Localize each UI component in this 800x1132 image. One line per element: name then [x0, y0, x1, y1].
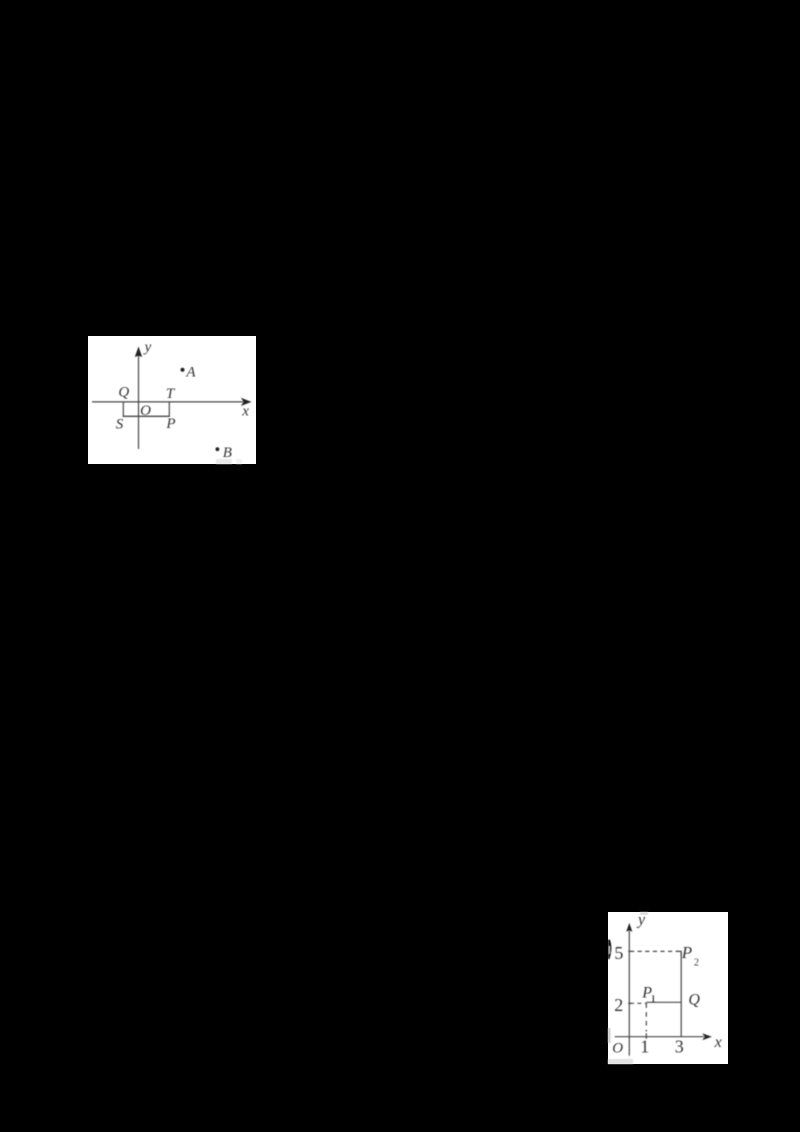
svg-text:Q: Q: [688, 992, 700, 1009]
svg-text:Q: Q: [118, 385, 129, 401]
right-angle mark at P1: [652, 997, 654, 1003]
svg-text:x: x: [714, 1034, 722, 1051]
left-edge cropped glyph blob: [608, 940, 611, 960]
smudge under B: [216, 459, 232, 464]
dashed vertical x=1: [645, 1003, 647, 1031]
point B dot: [216, 447, 220, 451]
svg-text:A: A: [185, 365, 196, 381]
y-axis arrowhead: [626, 923, 632, 932]
svg-text:3: 3: [675, 1036, 684, 1056]
rectangle QTPS bottom side: [123, 415, 170, 417]
gray streak left near O: [608, 1028, 611, 1043]
dashed line y=2 to P1: [630, 1002, 647, 1004]
svg-text:1: 1: [640, 1036, 649, 1056]
svg-text:5: 5: [614, 943, 623, 963]
svg-text:2: 2: [694, 958, 699, 969]
segment P2-Q-3 vertical: [680, 952, 682, 1036]
svg-text:S: S: [116, 417, 124, 433]
svg-text:T: T: [166, 386, 176, 402]
x-axis arrowhead: [241, 398, 252, 406]
tick y=5: [628, 950, 631, 952]
rectangle QTPS left side: [122, 402, 124, 416]
tick y=2: [628, 1002, 631, 1004]
x-axis: [92, 401, 243, 403]
svg-text:1: 1: [651, 994, 656, 1005]
gray patch bottom-left: [608, 1059, 633, 1064]
svg-text:O: O: [140, 403, 151, 419]
dashed line y=5 to P2: [630, 950, 679, 952]
svg-text:2: 2: [614, 995, 623, 1015]
segment P1-Q horizontal: [646, 1001, 681, 1003]
svg-text:y: y: [143, 340, 152, 356]
svg-text:x: x: [241, 404, 249, 420]
x-axis arrowhead: [702, 1033, 712, 1040]
x-axis: [615, 1036, 704, 1038]
point A dot: [181, 368, 185, 372]
svg-text:O: O: [612, 1041, 623, 1057]
gray mark top: [640, 912, 648, 915]
y-axis: [628, 931, 630, 1056]
corner hook at P2: [677, 951, 682, 956]
svg-text:P: P: [681, 943, 692, 962]
y-axis: [138, 354, 140, 449]
diagram 1 panel: [88, 336, 256, 464]
diagram 2 panel: [608, 912, 728, 1064]
y-axis arrowhead: [135, 347, 142, 358]
svg-text:B: B: [223, 445, 232, 461]
svg-text:P: P: [165, 416, 175, 432]
rectangle QTPS right side: [168, 402, 170, 416]
tick at x=1 crossing axis: [645, 1033, 647, 1039]
